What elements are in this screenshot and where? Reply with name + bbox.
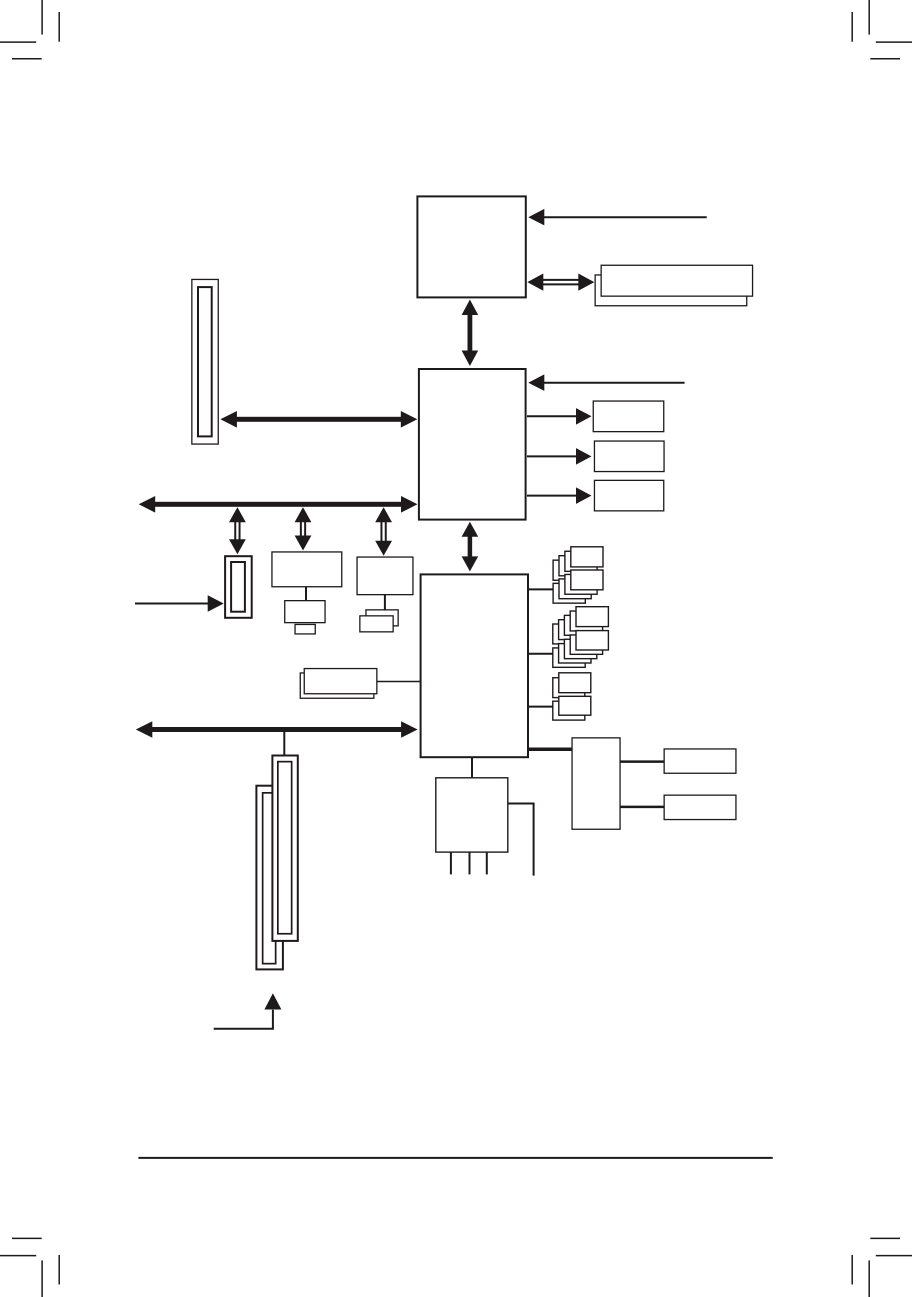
BIOS flash box (304, 669, 377, 694)
wire COM-to-TPM-header with right arrowhead (135, 595, 224, 612)
wire IOcontroller-to-USB-stack-B (528, 653, 560, 655)
chipset box (419, 369, 526, 520)
LAN port box 1 (664, 749, 736, 773)
memory module box (601, 265, 752, 296)
controller box (357, 557, 413, 595)
PCI bus arrow (lower) (136, 721, 418, 738)
CPU box (417, 196, 525, 297)
peripheral box 2 (594, 441, 664, 472)
double-line arrow bus-to-controller (375, 507, 392, 556)
wire codec jack stub 3 (486, 853, 488, 875)
audio codec box (436, 778, 508, 852)
DMI double-line bidirectional arrow (527, 274, 594, 291)
wire chipset-to-box1 with right arrowhead (527, 408, 592, 425)
memory module box shadow (595, 275, 747, 306)
wire controller stub (384, 595, 386, 610)
wire codec jack stub 1 (450, 853, 452, 875)
bidirectional arrow PCIe-slot to chipset (220, 411, 417, 428)
double-line arrow bus-to-TPM-header (229, 507, 246, 554)
USB port stack A (553, 547, 603, 603)
controller port box front (360, 616, 393, 632)
USB port stack C (553, 673, 591, 720)
SuperIO sub box (285, 601, 325, 623)
SuperIO port box (295, 624, 315, 634)
wire bus-to-PCI-slots (283, 730, 285, 756)
vertical bidirectional arrow CPU-chipset (462, 300, 479, 367)
vertical bidirectional arrow chipset-IOcontroller (462, 522, 479, 572)
BIOS flash box shadow (300, 673, 374, 698)
PCI slot back (256, 786, 283, 970)
PCI slot front (272, 756, 297, 941)
TPM header connector (225, 556, 252, 618)
wire BIOS-clock-to-chipset with left arrowhead (528, 374, 684, 391)
wire IOcontroller-to-USB-stack-A (528, 588, 560, 590)
L-shaped wire with up arrowhead (214, 993, 282, 1028)
LAN chip box (572, 738, 620, 829)
wire SuperIO stub (305, 587, 307, 601)
PCI bus arrow (upper) (139, 496, 418, 513)
wire chipset-to-box3 with right arrowhead (527, 487, 592, 504)
controller port box back (366, 610, 398, 626)
wire IOcontroller-to-USB-stack-C (528, 706, 560, 708)
footer rule (138, 1157, 772, 1159)
wire LAN-to-port2 (620, 806, 664, 809)
LAN port box 2 (664, 795, 736, 819)
wire codec L-shaped output (508, 804, 534, 876)
wire chipset-to-box2 with right arrowhead (527, 448, 592, 465)
double-line arrow bus-to-SuperIO (295, 507, 312, 550)
peripheral box 1 (593, 401, 664, 432)
wire IOcontroller-to-LAN (thick) (528, 747, 573, 751)
wire codec jack stub 2 (469, 853, 471, 875)
PCI Express x16 slot (192, 279, 218, 444)
wire clock-to-CPU with left arrowhead (528, 209, 706, 226)
Super I/O box (272, 552, 342, 587)
wire IOcontroller-to-codec (471, 757, 473, 778)
peripheral box 3 (594, 480, 663, 511)
I/O controller box (421, 574, 528, 757)
wire LAN-to-port1 (620, 760, 664, 763)
USB port stack B (553, 607, 609, 668)
wire BIOS-to-IO-controller (377, 681, 421, 683)
